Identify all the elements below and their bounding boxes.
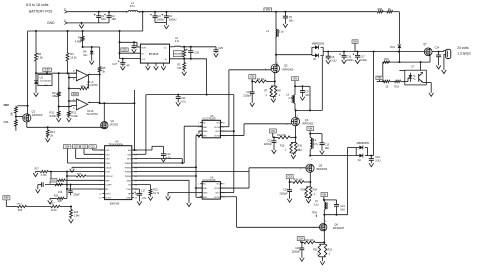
ground for C3 C4: [165, 23, 167, 26]
svg-text:C14: C14: [166, 153, 171, 156]
capacitor C12 2200pF: [273, 137, 275, 140]
svg-text:VIN: VIN: [378, 78, 382, 80]
svg-text:EN: EN: [128, 150, 131, 152]
svg-text:8.06k: 8.06k: [50, 114, 57, 118]
svg-text:TP20: TP20: [312, 212, 318, 214]
wire D2 output riser x373.5: [373, 52, 375, 156]
svg-text:R10: R10: [73, 93, 78, 96]
svg-text:R32: R32: [378, 8, 383, 11]
connector J3 output: [446, 49, 451, 58]
svg-text:GND: GND: [126, 198, 131, 200]
wire FB row: [67, 188, 103, 190]
svg-text:IRFR2405: IRFR2405: [282, 68, 294, 71]
svg-text:C51: C51: [90, 146, 95, 148]
svg-text:R4 2W: R4 2W: [257, 78, 265, 81]
svg-text:COMP: COMP: [105, 185, 112, 187]
svg-text:R22: R22: [153, 189, 158, 192]
svg-text:INA: INA: [203, 187, 207, 190]
svg-text:2200pF: 2200pF: [264, 143, 273, 146]
wire pin5 CSCN gnd: [72, 166, 103, 168]
wire pin19 PWM3: [134, 171, 249, 173]
svg-text:C23: C23: [375, 156, 380, 159]
svg-text:R15: R15: [280, 144, 285, 147]
svg-text:1000U: 1000U: [169, 18, 177, 22]
svg-text:R26: R26: [18, 210, 23, 212]
svg-text:C20: C20: [295, 247, 300, 250]
wire U1-B output: [88, 102, 100, 104]
svg-text:R36: R36: [4, 120, 9, 124]
svg-text:1000U: 1000U: [157, 18, 165, 22]
svg-text:C18: C18: [283, 189, 288, 192]
net label VIN phase3: [307, 127, 314, 131]
wire pin22 jog: [134, 158, 183, 160]
wire Q3 source: [274, 73, 276, 82]
svg-text:+: +: [78, 99, 80, 103]
svg-text:1000u: 1000u: [360, 59, 368, 62]
net label box C54 row: [63, 145, 71, 149]
wire hysteresis column x68.9: [68, 73, 70, 111]
resistor R34: [383, 61, 390, 63]
wire pin21 PWM1 to U5 INA: [134, 162, 184, 164]
wire U1-A pin3 stub: [74, 72, 76, 74]
wire phase1 drop: [275, 11, 277, 13]
svg-text:18U: 18U: [325, 147, 330, 150]
transistor Q7 pass: [424, 48, 432, 56]
svg-text:GND: GND: [203, 131, 208, 133]
wire bottom feedback y127.3: [27, 126, 105, 128]
svg-text:4.7u: 4.7u: [166, 157, 171, 160]
ground at battery gnd: [81, 22, 83, 24]
svg-text:VIN: VIN: [308, 128, 312, 130]
svg-text:C17: C17: [141, 190, 146, 193]
wire gnd rail: [69, 22, 109, 24]
svg-text:R13: R13: [50, 130, 55, 134]
svg-text:BTI845: BTI845: [149, 52, 159, 56]
svg-text:3.3U: 3.3U: [331, 60, 336, 63]
svg-text:1000u: 1000u: [347, 59, 355, 62]
wire opto collector row y62.1: [383, 61, 430, 63]
svg-text:VDD: VDD: [215, 131, 220, 133]
svg-text:NC: NC: [217, 122, 221, 124]
capacitor C25: [215, 47, 217, 50]
net label box C51: [249, 75, 256, 79]
wire y105.8 link: [17, 105, 27, 107]
net label box REF bottom: [3, 196, 10, 200]
wire U1-A pin2 stub: [69, 77, 77, 79]
svg-text:CSA: CSA: [105, 162, 110, 165]
wire Q1 gate: [16, 116, 23, 118]
svg-text:C4: C4: [169, 14, 173, 18]
capacitor C28: [190, 47, 192, 51]
resistor R6 7.5k: [35, 30, 37, 32]
svg-text:.47u: .47u: [142, 197, 147, 200]
svg-text:bst: bst: [164, 47, 167, 50]
svg-text:220pF: 220pF: [73, 195, 80, 197]
svg-text:ILIM: ILIM: [105, 172, 109, 174]
sense resistors R7 R8 .1: [274, 81, 276, 86]
U4 pins: [103, 149, 105, 151]
capacitor C19 220pF: [70, 185, 72, 191]
capacitor C10 2200pF: [251, 81, 253, 92]
wire U5 OUTB to Q4 gate riser: [220, 134, 244, 136]
capacitor C27 4F: [122, 59, 124, 63]
op-amp U1-B TLC3702: [76, 99, 87, 110]
wire ILIM drop: [50, 172, 52, 181]
svg-text:24 volts: 24 volts: [457, 46, 469, 50]
op-amp U1-A TLC3702: [76, 70, 87, 81]
shunt reference U3 TL431IDBZ: [38, 75, 52, 86]
wire phase4 vin node: [324, 199, 337, 201]
wire Q1 drain: [27, 106, 29, 114]
capacitor C13 18U: [321, 134, 323, 143]
svg-text:INB: INB: [203, 197, 207, 199]
connector J1 gnd: [65, 21, 68, 24]
svg-text:51.7k: 51.7k: [153, 192, 160, 195]
net label 24V: [352, 40, 358, 44]
svg-text:2.49k: 2.49k: [71, 114, 78, 118]
wire pin23 riser: [134, 153, 146, 155]
capacitor C6 3.3U: [327, 52, 329, 57]
svg-text:OUTA: OUTA: [214, 126, 220, 129]
wire Q4 source: [295, 126, 297, 138]
capacitor C18 2200pF: [289, 182, 291, 190]
resistor R36: [15, 120, 18, 127]
connector J2 battery pos: [65, 10, 68, 13]
capacitor C4 1000U: [165, 11, 167, 13]
wire U5 OUTA to Q3 gate riser: [220, 126, 229, 128]
net label box C53: [286, 175, 293, 179]
svg-text:Q1: Q1: [32, 109, 36, 113]
svg-text:16v: 16v: [83, 53, 88, 57]
wire D2 upper anode feed: [348, 147, 357, 149]
svg-text:TP14: TP14: [296, 150, 302, 152]
svg-text:BATTERY POS: BATTERY POS: [29, 10, 53, 14]
svg-text:1.54k: 1.54k: [74, 216, 80, 218]
wire U6 VDD stub: [220, 191, 233, 193]
svg-text:500KHZ: 500KHZ: [110, 202, 120, 206]
U2 bottom pin grounds: [147, 63, 149, 66]
zener D4 16v: [91, 47, 93, 51]
inductor L3 3.3u: [294, 86, 296, 95]
net label VIN phase2: [292, 77, 299, 81]
resistor R3 16.2k: [67, 30, 69, 32]
resistor R28 1.54k: [70, 207, 72, 210]
svg-text:VDD: VDD: [215, 192, 220, 194]
capacitor C1 18U: [98, 11, 100, 13]
svg-text:IRFR2405: IRFR2405: [302, 123, 314, 126]
inductor L5 3.3u: [323, 200, 325, 202]
resistor R19b with box to REF pin: [50, 179, 57, 182]
svg-text:R17: R17: [35, 169, 40, 171]
svg-text:40.2K: 40.2K: [51, 210, 57, 212]
net label box C53 row: [72, 145, 79, 149]
capacitor C5 18U: [284, 11, 286, 13]
wire x119.5 column: [119, 30, 121, 32]
svg-text:2N7002: 2N7002: [110, 124, 119, 127]
wire Q6 source: [323, 231, 325, 243]
svg-text:2200pF: 2200pF: [292, 251, 301, 254]
svg-text:R31: R31: [328, 248, 333, 251]
inductor L6: [170, 46, 175, 48]
wire VD1 to opto row: [398, 52, 400, 63]
wire C52 to pin2: [83, 149, 85, 155]
svg-text:R33: R33: [394, 85, 399, 88]
wire to U1-B pin6: [71, 106, 73, 107]
wire Q4 gate: [244, 123, 291, 125]
svg-text:R24: R24: [313, 189, 318, 192]
wire Q7 to output: [432, 51, 443, 53]
svg-text:C54: C54: [65, 146, 70, 148]
svg-text:1.3 amps: 1.3 amps: [457, 51, 471, 55]
svg-text:VD1: VD1: [390, 46, 395, 49]
svg-text:4F: 4F: [127, 64, 130, 67]
wire C26 to U2 pin1: [136, 42, 138, 47]
svg-text:2200pF: 2200pF: [243, 94, 252, 97]
svg-text:IRFR2405: IRFR2405: [316, 168, 328, 171]
wire horizontal distribution y31: [28, 30, 143, 32]
svg-text:Ref: Ref: [45, 85, 49, 87]
wire node N1 y106.5: [59, 106, 72, 108]
svg-text:R23: R23: [301, 189, 306, 192]
wire U5 INB stub: [196, 135, 202, 137]
svg-text:3.3u: 3.3u: [314, 204, 319, 207]
svg-text:GND: GND: [47, 21, 55, 25]
svg-text:C52: C52: [82, 146, 87, 148]
svg-text:C53: C53: [288, 177, 293, 179]
ref label box R10: [72, 93, 79, 96]
svg-text:GND: GND: [203, 192, 208, 194]
capacitor C14 4.7u: [162, 146, 164, 154]
svg-text:C28: C28: [194, 52, 199, 55]
svg-text:C11: C11: [181, 97, 186, 100]
wire VDD riser x233.8: [233, 95, 235, 193]
svg-text:11k: 11k: [80, 84, 85, 88]
diode VD1: [397, 45, 401, 48]
wire U2 switch node: [181, 46, 217, 48]
transistor Q1 SI2301DS: [23, 114, 31, 122]
sense resistors R30 R31 .1: [323, 242, 325, 244]
svg-text:R28: R28: [74, 212, 79, 214]
svg-text:VIN: VIN: [128, 154, 132, 156]
wire riser x206.6: [206, 59, 208, 95]
U6 GND wire: [168, 191, 202, 193]
wire supply line y94.6: [146, 94, 234, 96]
transistor Q4 IRFR2405: [295, 110, 297, 117]
svg-text:4.7u: 4.7u: [181, 100, 186, 103]
svg-text:3.7u: 3.7u: [313, 143, 318, 146]
resistor R1 4.99k: [82, 30, 84, 32]
resistor R11 8.06k: [58, 107, 60, 112]
svg-text:C21: C21: [340, 205, 345, 208]
svg-text:C3: C3: [157, 14, 161, 18]
svg-text:Q2: Q2: [110, 119, 114, 123]
svg-text:IRFR2405: IRFR2405: [333, 227, 345, 230]
svg-text:18U: 18U: [101, 17, 106, 21]
wire phase2 right leg: [309, 86, 311, 110]
svg-text:TL431IDBZ: TL431IDBZ: [40, 80, 52, 82]
svg-text:OUTA: OUTA: [214, 187, 220, 190]
wire U6 OUTA to Q5 gate riser: [220, 187, 249, 189]
wire phase3 vin node: [310, 133, 322, 135]
svg-text:VIN: VIN: [293, 79, 297, 81]
svg-text:47U: 47U: [130, 4, 135, 8]
wire Q1 source down: [26, 122, 28, 127]
net label VIN on rail: [264, 8, 272, 11]
wire C51 to pin1: [92, 149, 94, 151]
net label box C51 row: [89, 145, 96, 149]
svg-text:2.5V: 2.5V: [45, 69, 50, 72]
svg-text:R1: R1: [78, 35, 82, 39]
resistor R33: [395, 80, 401, 82]
net label 2.5V: [43, 68, 52, 71]
capacitor C2 18U: [108, 11, 110, 13]
resistor R10 11k feedback: [87, 75, 89, 89]
svg-text:INA: INA: [203, 126, 207, 129]
svg-text:GND: GND: [126, 180, 131, 182]
svg-text:16.2k: 16.2k: [70, 56, 77, 60]
svg-text:PGD: PGD: [126, 189, 131, 191]
transistor Q6 IRFR2405: [323, 215, 325, 224]
svg-text:REF: REF: [4, 198, 9, 200]
svg-text:+: +: [78, 70, 80, 74]
wire Q5 gate: [249, 167, 306, 169]
U5 GND to ground: [199, 130, 202, 132]
svg-text:4.99k: 4.99k: [75, 39, 82, 43]
resistor R4 2W: [252, 80, 254, 82]
wire U2 pin2: [120, 52, 141, 54]
svg-text:18U: 18U: [340, 209, 345, 212]
wire Q6 gate: [237, 226, 320, 228]
wire feedback drop x399.4: [398, 12, 400, 44]
resistor R26: [18, 205, 27, 207]
svg-text:Q3: Q3: [284, 63, 288, 67]
resistor R35 280K: [183, 47, 185, 50]
wire U1-B pin5 stub: [69, 100, 77, 102]
wire Q5 source: [309, 172, 311, 182]
net label box C54: [297, 237, 304, 241]
resistor R32: [377, 11, 383, 13]
wire pin18 PWM4: [134, 175, 196, 177]
sense resistors R15 R16 .1: [295, 137, 297, 142]
resistor R9 18k: [58, 73, 60, 92]
svg-text:PWM4: PWM4: [125, 176, 132, 178]
net label box C52 row: [81, 145, 88, 149]
wire Q3 gate: [229, 69, 271, 71]
svg-text:NC: NC: [203, 122, 207, 124]
svg-text:R27: R27: [50, 204, 55, 206]
wire battery+ rail to L1: [69, 11, 129, 13]
svg-text:C53: C53: [74, 146, 79, 148]
resistor R25 20K: [50, 197, 57, 199]
svg-text:Q4: Q4: [305, 118, 309, 122]
capacitor C24: [438, 51, 440, 53]
svg-text:1K: 1K: [388, 8, 391, 11]
svg-text:REF: REF: [4, 103, 10, 107]
svg-text:R25: R25: [54, 196, 59, 198]
svg-text:R35 280K: R35 280K: [173, 53, 182, 55]
svg-text:C52: C52: [271, 131, 276, 133]
svg-text:18U: 18U: [289, 20, 294, 23]
svg-text:7.5k: 7.5k: [38, 56, 44, 60]
wire output node to Q2: [100, 102, 135, 104]
wire phase2 drain node: [295, 109, 322, 111]
resistor R27 40.2K: [51, 205, 60, 207]
svg-text:R11: R11: [50, 110, 55, 114]
svg-text:C26: C26: [122, 50, 127, 52]
wire pin24 to C14: [134, 149, 152, 151]
svg-text:R3: R3: [70, 52, 74, 56]
svg-text:PWM3: PWM3: [125, 172, 132, 174]
capacitor C9 18U: [302, 86, 304, 90]
wire U6 INB stub: [196, 196, 202, 198]
svg-text:TLC3702: TLC3702: [86, 112, 98, 116]
capacitor C20 2200pF: [301, 242, 303, 248]
resistor R7b 18k: [15, 106, 17, 107]
capacitor C3 1000U: [154, 11, 156, 13]
svg-text:RUN: RUN: [142, 48, 147, 50]
svg-text:C19: C19: [58, 192, 63, 194]
wire U2 pin3: [120, 58, 141, 60]
svg-text:51K: 51K: [177, 67, 182, 70]
wire 24V rail: [323, 51, 424, 53]
capacitor C11 4.7u: [177, 95, 179, 97]
wire C54 to pin4: [66, 149, 68, 164]
wire phase4 riser x347.5: [347, 148, 349, 215]
resistor R5 3k pull-up: [99, 47, 101, 67]
svg-text:4.7u: 4.7u: [175, 40, 180, 43]
svg-text:C24: C24: [435, 46, 440, 49]
svg-text:GPIO: GPIO: [105, 193, 111, 195]
resistor R20 20: [384, 80, 390, 82]
wire Q7 gate: [429, 55, 431, 62]
inductor L2 3.3u: [275, 29, 276, 38]
svg-text:18U: 18U: [111, 17, 116, 21]
wire U5 VDD stub: [220, 130, 233, 132]
svg-text:VOUT: VOUT: [105, 198, 112, 200]
transistor Q2 2N7002: [101, 122, 108, 129]
svg-text:DROOP: DROOP: [105, 176, 113, 178]
resistor R12 2.49k: [68, 111, 71, 116]
wire node R1 D4: [83, 46, 100, 48]
net label box C52: [269, 129, 276, 133]
capacitor C17b .47u on pin15: [134, 188, 140, 190]
svg-text:CSCN: CSCN: [105, 167, 111, 169]
svg-text:18U: 18U: [305, 94, 310, 97]
wire C53 to pin3: [75, 149, 77, 159]
svg-text:PWM1: PWM1: [125, 163, 132, 165]
wire bottom divider row: [6, 206, 17, 208]
svg-text:3.3U: 3.3U: [375, 159, 380, 162]
wire 2.5V reference line: [36, 72, 76, 74]
wire battery+ rail after L1: [138, 11, 378, 13]
resistor R2 51K: [183, 59, 185, 63]
wire Q2 drain column x134.4: [133, 90, 135, 150]
svg-text:NC: NC: [217, 184, 221, 186]
svg-text:C51: C51: [250, 77, 255, 79]
svg-text:OUTB: OUTB: [214, 197, 220, 199]
sense resistors R23 R24 .1: [309, 182, 311, 187]
svg-text:C10: C10: [246, 91, 251, 94]
svg-text:18k: 18k: [52, 94, 57, 98]
svg-text:C25: C25: [218, 47, 223, 50]
svg-text:20K: 20K: [58, 201, 63, 203]
wire phase2 vin node: [295, 85, 310, 87]
svg-text:C27: C27: [112, 63, 117, 66]
regulator U2 BTI845: [140, 44, 169, 63]
resistor R17 4.75K on ILIM: [51, 171, 103, 173]
svg-text:R16: R16: [298, 144, 303, 147]
resistor R13 2K: [47, 127, 49, 130]
